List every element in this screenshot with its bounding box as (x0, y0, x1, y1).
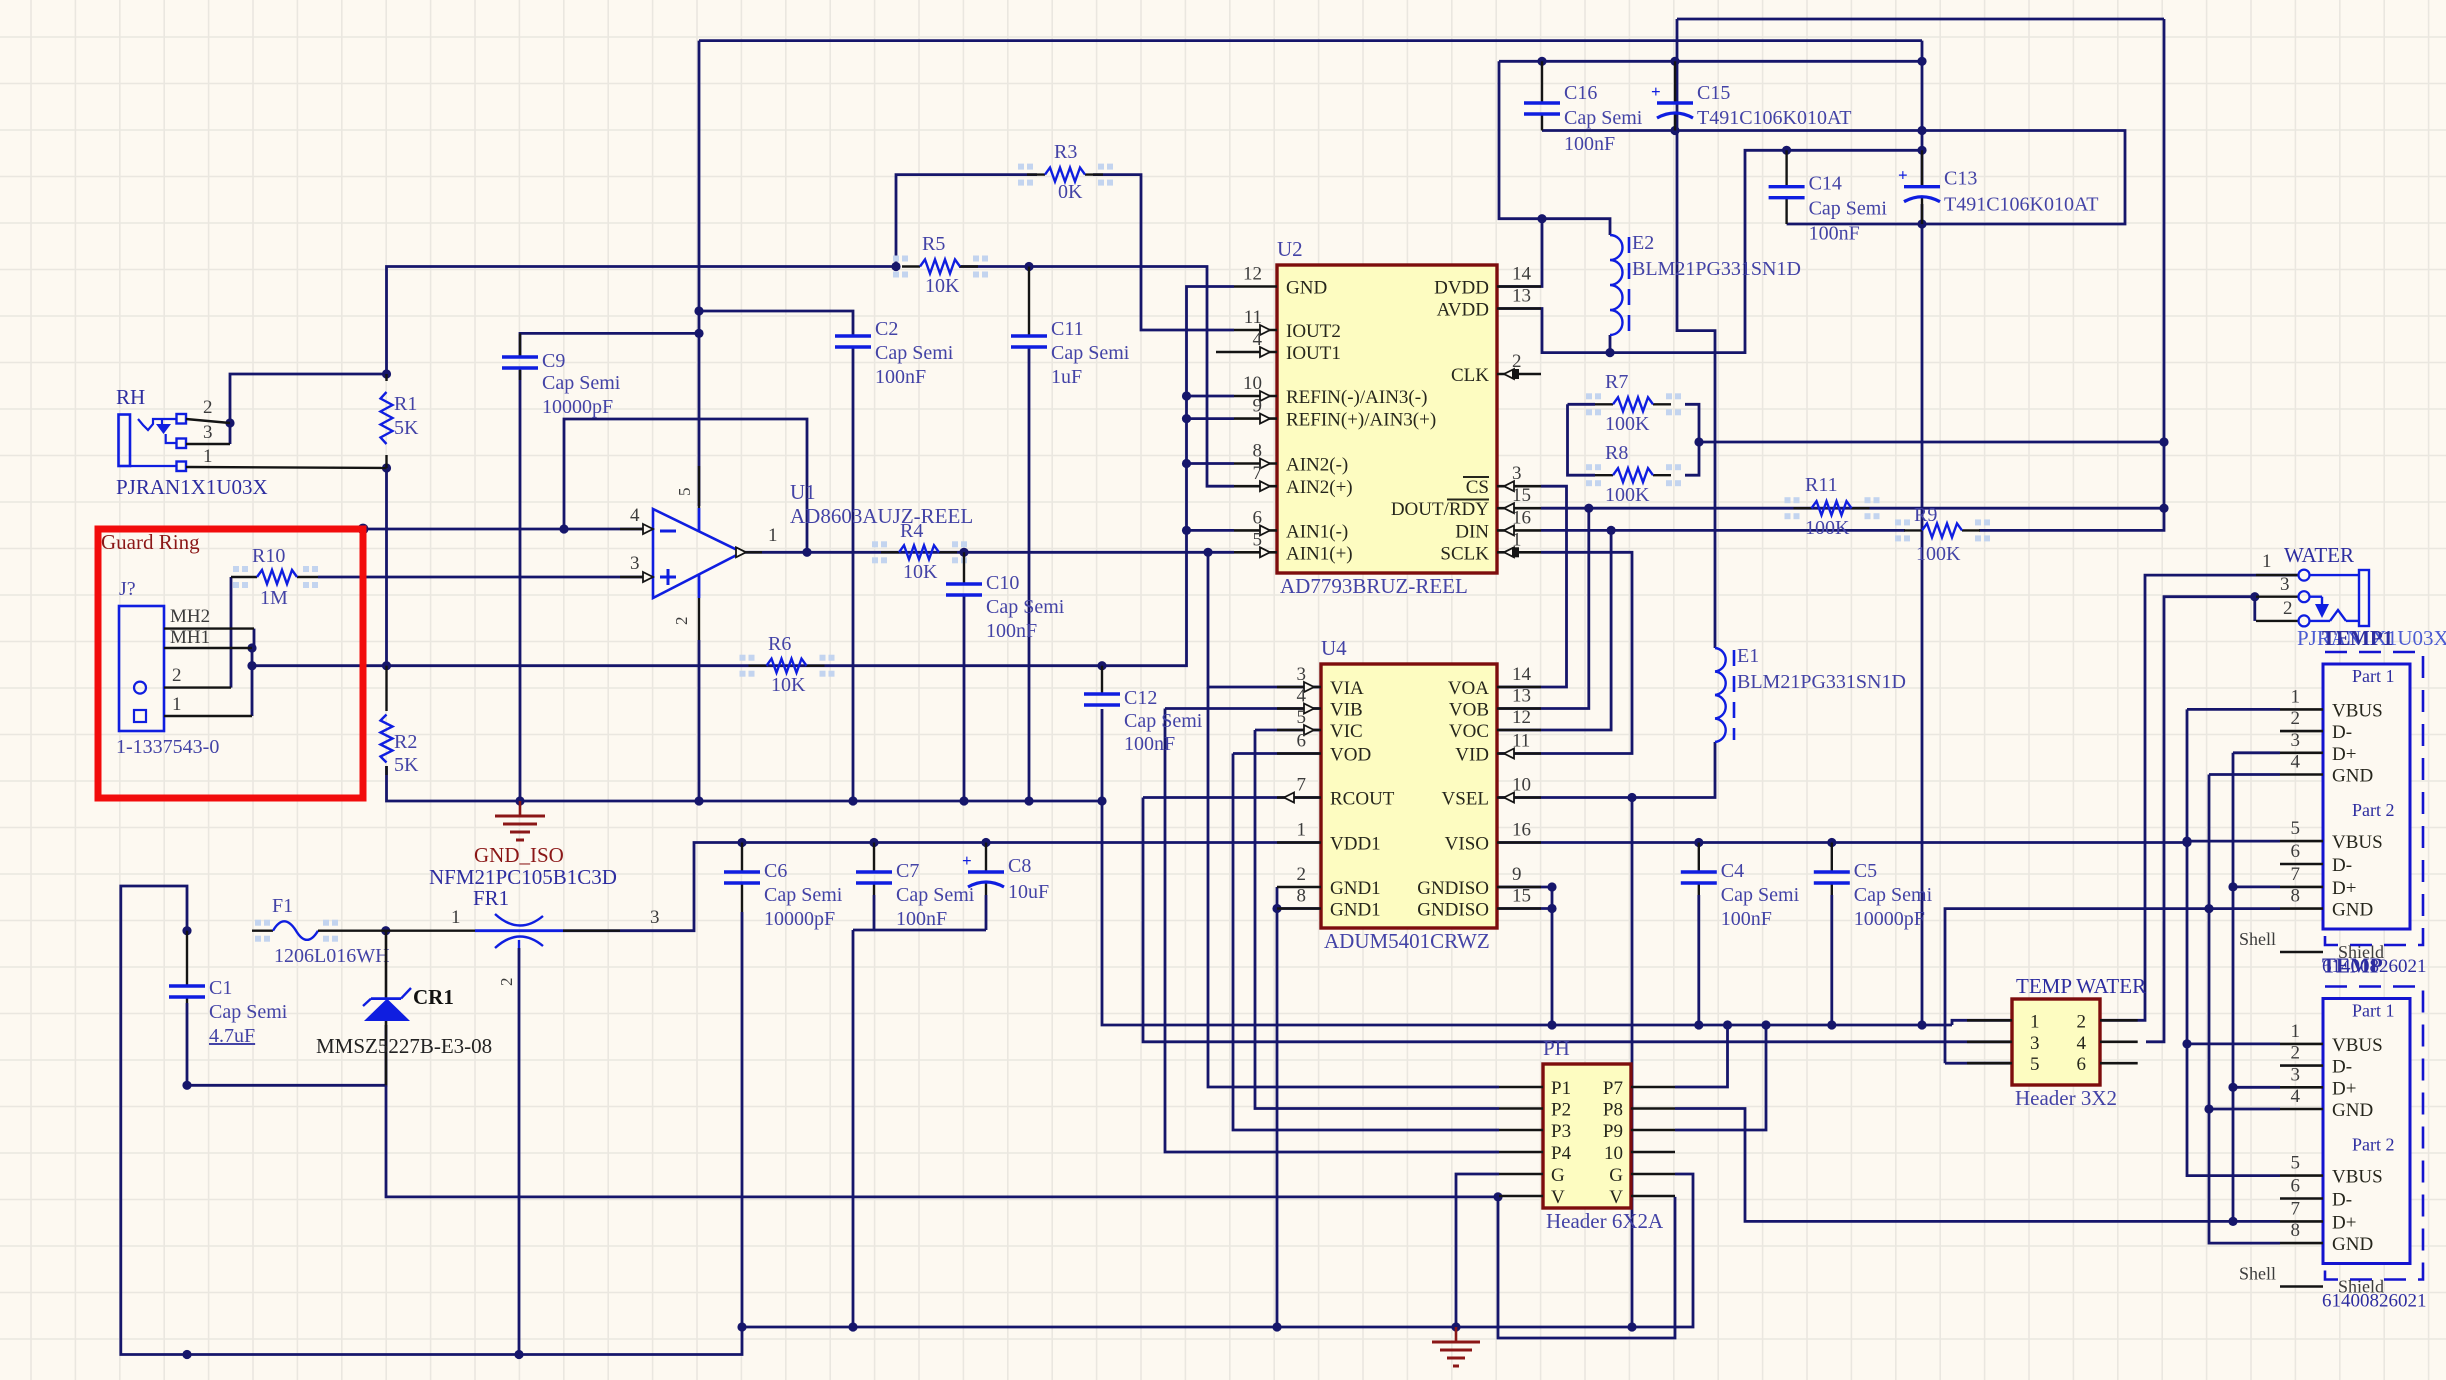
svg-text:1M: 1M (260, 587, 288, 609)
junction cap rail end (1917, 57, 1926, 66)
svg-text:REFIN(-)/AIN3(-): REFIN(-)/AIN3(-) (1286, 387, 1427, 408)
junction U4 gnd1 (1272, 904, 1281, 913)
svg-text:100K: 100K (1805, 517, 1850, 539)
svg-text:Part 1: Part 1 (2352, 666, 2395, 686)
junction usb gnd8 (2204, 904, 2213, 913)
junction C4 top (1694, 838, 1703, 847)
svg-text:Cap Semi: Cap Semi (1721, 884, 1800, 906)
svg-text:TEMP: TEMP (2322, 954, 2383, 978)
junction R1 pin1 (382, 463, 391, 472)
connector RH PJRAN1X1U03X (116, 385, 387, 499)
wire U4 pin8 stub link (1277, 907, 1321, 910)
connector TEMP1 USB 61400826021 (2239, 652, 2427, 977)
junction RH/R1 (225, 418, 234, 427)
svg-text:J?: J? (119, 578, 136, 600)
resistor R1 (381, 374, 420, 468)
svg-text:R5: R5 (922, 233, 945, 255)
svg-text:VID: VID (1455, 745, 1489, 766)
guard ring (98, 529, 363, 798)
svg-text:100K: 100K (1605, 413, 1650, 435)
svg-text:10K: 10K (925, 275, 960, 297)
svg-text:Shell: Shell (2239, 929, 2276, 949)
svg-text:C8: C8 (1008, 855, 1031, 877)
svg-text:5: 5 (2291, 818, 2301, 839)
wire ref to AIN2+ (1029, 267, 1234, 487)
svg-text:BLM21PG331SN1D: BLM21PG331SN1D (1737, 671, 1906, 693)
wire supply top rail (699, 39, 1922, 42)
svg-text:VBUS: VBUS (2332, 832, 2383, 853)
junction gndiso9 (1547, 882, 1556, 891)
junction P7 tap (1723, 1020, 1732, 1029)
resistor R5 (893, 233, 988, 297)
wire C7 leg (873, 895, 876, 930)
svg-text:AIN1(+): AIN1(+) (1286, 543, 1353, 564)
wire top frame (1677, 18, 2164, 21)
svg-text:VIC: VIC (1330, 721, 1363, 742)
junction U4 gnd rail (1272, 1322, 1281, 1331)
junction gnd sym rail (1451, 1322, 1460, 1331)
junction C1 rail (182, 1350, 191, 1359)
svg-text:2: 2 (2291, 1043, 2301, 1064)
svg-text:RCOUT: RCOUT (1330, 789, 1395, 810)
wire R7 right leg (1685, 404, 1699, 442)
svg-text:REFIN(+)/AIN3(+): REFIN(+)/AIN3(+) (1286, 410, 1436, 431)
svg-text:16: 16 (1512, 507, 1531, 528)
resistor R2 (381, 666, 420, 776)
svg-text:8: 8 (2291, 1220, 2301, 1241)
svg-text:Cap Semi: Cap Semi (875, 342, 954, 364)
svg-text:P3: P3 (1551, 1121, 1571, 1142)
junction pin2 gnd (694, 796, 703, 805)
svg-text:Cap Semi: Cap Semi (1564, 107, 1643, 129)
junction R5 left (891, 262, 900, 271)
ferrite bead E1 BLM21PG331SN1D (1715, 645, 1906, 742)
svg-text:1: 1 (2291, 686, 2301, 707)
svg-text:8: 8 (1297, 886, 1307, 907)
svg-text:RH: RH (116, 385, 145, 409)
svg-text:GNDISO: GNDISO (1417, 878, 1489, 899)
junction gndiso rail tap (1547, 1020, 1556, 1029)
svg-text:C12: C12 (1124, 687, 1157, 709)
svg-text:VBUS: VBUS (2332, 1035, 2383, 1056)
svg-text:ADUM5401CRWZ: ADUM5401CRWZ (1324, 929, 1490, 953)
wire DIN to R9 (1541, 529, 1905, 532)
svg-text:T491C106K010AT: T491C106K010AT (1697, 107, 1851, 129)
svg-text:1: 1 (1512, 529, 1522, 550)
resistor R7 (1586, 371, 1681, 435)
svg-text:GND: GND (2332, 1100, 2373, 1121)
wire pin10 (1187, 395, 1235, 398)
svg-text:IOUT1: IOUT1 (1286, 343, 1341, 364)
svg-text:VIA: VIA (1330, 678, 1364, 699)
svg-text:Cap Semi: Cap Semi (542, 372, 621, 394)
wire R7R8 left link (1568, 403, 1596, 406)
svg-text:R4: R4 (900, 520, 923, 542)
svg-text:100nF: 100nF (1564, 133, 1615, 155)
svg-text:6: 6 (2291, 1176, 2301, 1197)
junction REFIN+ tap (1182, 414, 1191, 423)
svg-text:P8: P8 (1603, 1100, 1623, 1121)
wire feedback (564, 419, 807, 552)
svg-text:2: 2 (2283, 598, 2293, 619)
svg-text:13: 13 (1512, 286, 1531, 307)
svg-text:WATER: WATER (2284, 543, 2354, 567)
svg-text:2: 2 (2077, 1011, 2087, 1032)
svg-text:15: 15 (1512, 886, 1531, 907)
junction feedback/pin4 (559, 524, 568, 533)
resistor R11 (1785, 474, 1880, 539)
junction VSEL tap (1627, 793, 1636, 802)
svg-text:VDD1: VDD1 (1330, 834, 1381, 855)
junction C13 bottom (1917, 219, 1926, 228)
svg-text:1: 1 (1297, 820, 1307, 841)
wire TW pin5 link (1945, 1062, 2012, 1065)
svg-text:10000pF: 10000pF (542, 396, 613, 418)
wire gndiso long leg (1921, 41, 1924, 187)
wire pin9 (1187, 417, 1235, 420)
wire R3 right leg (1093, 175, 1234, 330)
svg-text:3: 3 (2280, 574, 2290, 595)
wire pin8 (1187, 462, 1235, 465)
junction C10 gnd (959, 796, 968, 805)
wire VOB leg (1321, 508, 1589, 708)
svg-text:6: 6 (1297, 731, 1307, 752)
svg-text:GND_ISO: GND_ISO (474, 843, 564, 867)
svg-text:FR1: FR1 (473, 886, 509, 910)
svg-text:C15: C15 (1697, 82, 1730, 104)
svg-text:10K: 10K (903, 561, 938, 583)
junction dplus3 lower (2228, 1083, 2237, 1092)
svg-text:SCLK: SCLK (1440, 543, 1489, 564)
svg-text:VOD: VOD (1330, 745, 1371, 766)
svg-text:2: 2 (2291, 708, 2301, 729)
wire to C9 top (520, 333, 699, 357)
svg-text:F1: F1 (272, 895, 293, 917)
wire gnd drop (852, 930, 855, 1327)
svg-text:3: 3 (1512, 463, 1522, 484)
svg-text:1: 1 (2030, 1011, 2040, 1032)
junction R2 top (382, 661, 391, 670)
junction dplus7 lower (2228, 1217, 2237, 1226)
resistor R9 (1895, 504, 1990, 565)
wire vbus vert (2187, 709, 2280, 1175)
svg-text:2: 2 (1297, 864, 1307, 885)
junction C15C16 link (1537, 214, 1546, 223)
junction C10 tap (959, 548, 968, 557)
junction C6 rail (737, 1322, 746, 1331)
svg-text:CLK: CLK (1451, 365, 1489, 386)
wire WATER pin1 net (2100, 575, 2299, 1020)
capacitor C6 (724, 843, 843, 931)
svg-text:C10: C10 (986, 572, 1019, 594)
svg-text:C7: C7 (896, 860, 919, 882)
svg-text:1uF: 1uF (1051, 366, 1082, 388)
junction gndiso15 (1547, 904, 1556, 913)
svg-text:4: 4 (1253, 329, 1263, 350)
svg-text:D+: D+ (2332, 878, 2356, 899)
capacitor C13 (1898, 150, 2098, 224)
capacitor C5 (1814, 843, 1933, 931)
svg-text:4: 4 (1297, 686, 1307, 707)
svg-text:2: 2 (172, 665, 182, 686)
svg-text:D+: D+ (2332, 1212, 2356, 1233)
svg-text:13: 13 (1512, 686, 1531, 707)
wire V supply to PH (386, 1085, 1498, 1197)
svg-text:10uF: 10uF (1008, 881, 1049, 903)
svg-text:R10: R10 (252, 545, 285, 567)
svg-text:VIB: VIB (1330, 700, 1363, 721)
svg-text:2: 2 (203, 397, 213, 418)
svg-text:P9: P9 (1603, 1121, 1623, 1142)
svg-text:7: 7 (2291, 1198, 2301, 1219)
svg-text:AIN2(-): AIN2(-) (1286, 455, 1348, 476)
svg-text:+: + (962, 851, 972, 870)
capacitor C1 (169, 931, 288, 1047)
svg-text:P1: P1 (1551, 1078, 1571, 1099)
svg-text:U2: U2 (1277, 237, 1303, 261)
capacitor C7 (856, 843, 975, 931)
svg-text:5: 5 (2291, 1153, 2301, 1174)
svg-text:VOC: VOC (1449, 721, 1489, 742)
wire DOUT/RDY to R11 (1541, 507, 2164, 510)
junction vbus5 upper (2182, 837, 2191, 846)
svg-text:10K: 10K (771, 674, 806, 696)
junction C15 bottom (1670, 126, 1679, 135)
svg-text:D-: D- (2332, 1057, 2352, 1078)
svg-text:100nF: 100nF (1721, 908, 1772, 930)
wire CS to VOA (1321, 486, 1567, 687)
svg-text:GNDISO: GNDISO (1417, 900, 1489, 921)
wire VOC leg (1321, 530, 1611, 730)
junction gnd rail C7 (848, 1322, 857, 1331)
junction C5 gnd (1827, 1020, 1836, 1029)
svg-text:V: V (1609, 1187, 1623, 1208)
svg-text:R7: R7 (1605, 371, 1628, 393)
wire VISO rail (1497, 841, 2187, 844)
wire usb gnd net (1945, 909, 2280, 1064)
svg-text:R6: R6 (768, 633, 791, 655)
svg-text:6: 6 (1253, 507, 1263, 528)
wire to C2 top (699, 311, 853, 336)
svg-text:1: 1 (172, 694, 182, 715)
junction R5/C11 (1024, 262, 1033, 271)
wire R5 up to R3 (896, 175, 1037, 267)
junction dplus7 upper (2228, 882, 2237, 891)
IC U2 AD7793BRUZ-REEL (1216, 237, 1541, 598)
capacitor C15 (1651, 61, 1851, 130)
wire P9 up (1675, 1025, 1766, 1130)
svg-text:6: 6 (2077, 1054, 2087, 1075)
wire VIC to P2 (1255, 730, 1499, 1109)
svg-text:Cap Semi: Cap Semi (1854, 884, 1933, 906)
svg-text:7: 7 (1253, 463, 1263, 484)
svg-text:10000pF: 10000pF (764, 908, 835, 930)
svg-text:5: 5 (675, 488, 694, 497)
svg-text:Part 2: Part 2 (2352, 1135, 2395, 1155)
wire FR1 pin3 up (563, 843, 1321, 931)
svg-text:1: 1 (2262, 551, 2272, 572)
wire VSEL drop (1631, 798, 1634, 1328)
junction C15 top (1670, 57, 1679, 66)
svg-text:3: 3 (203, 422, 213, 443)
junction F1 right (381, 926, 390, 935)
svg-text:100nF: 100nF (1809, 223, 1860, 245)
capacitor C4 (1681, 843, 1800, 931)
svg-text:Cap Semi: Cap Semi (1809, 198, 1888, 220)
svg-text:T491C106K010AT: T491C106K010AT (1944, 194, 2098, 216)
svg-text:10: 10 (1512, 775, 1531, 796)
junction AIN2- tap (1182, 459, 1191, 468)
svg-text:11: 11 (1244, 307, 1262, 328)
junction C13 top (1917, 146, 1926, 155)
svg-text:0K: 0K (1058, 181, 1083, 203)
junction C12 gnd (1097, 796, 1106, 805)
svg-text:+: + (1898, 166, 1908, 185)
svg-text:Shell: Shell (2239, 1264, 2276, 1284)
svg-text:BLM21PG331SN1D: BLM21PG331SN1D (1632, 258, 1801, 280)
wire op-amp V+ vertical (698, 41, 701, 506)
svg-text:Header 3X2: Header 3X2 (2015, 1086, 2117, 1110)
svg-text:4.7uF: 4.7uF (209, 1025, 255, 1047)
svg-text:7: 7 (1297, 775, 1307, 796)
svg-text:DVDD: DVDD (1434, 278, 1489, 299)
svg-text:CS: CS (1466, 477, 1489, 498)
svg-text:MMSZ5227B-E3-08: MMSZ5227B-E3-08 (316, 1034, 492, 1058)
wire C12 down to iso rail (1102, 709, 1952, 1025)
wire RCOUT to TW3 (1143, 798, 2012, 1042)
svg-text:R2: R2 (394, 731, 417, 753)
svg-text:CR1: CR1 (413, 985, 454, 1009)
svg-text:2: 2 (672, 617, 691, 626)
svg-text:10: 10 (1243, 373, 1262, 394)
svg-text:14: 14 (1512, 664, 1532, 685)
svg-text:Cap Semi: Cap Semi (764, 884, 843, 906)
wire P8 to D+ (1675, 1109, 2233, 1222)
svg-text:3: 3 (630, 553, 640, 574)
wire op-amp pin2 leg (698, 640, 701, 801)
svg-text:AIN2(+): AIN2(+) (1286, 477, 1353, 498)
junction VOC tap (1607, 526, 1616, 535)
wire J guard link (253, 629, 256, 648)
svg-text:15: 15 (1512, 485, 1531, 506)
svg-text:GND: GND (2332, 766, 2373, 787)
svg-text:3: 3 (2291, 730, 2301, 751)
svg-text:100nF: 100nF (875, 366, 926, 388)
svg-text:R1: R1 (394, 393, 417, 415)
svg-text:C2: C2 (875, 318, 898, 340)
svg-text:R9: R9 (1914, 504, 1937, 526)
svg-text:VISO: VISO (1445, 834, 1489, 855)
svg-text:C13: C13 (1944, 168, 1977, 190)
filter FR1 NFM21PC105B1C3D (386, 907, 660, 986)
wire RCOUT net (1143, 796, 1321, 799)
wire vbus1 upper (2187, 708, 2280, 711)
svg-text:Part 2: Part 2 (2352, 800, 2395, 820)
junction P9 tap (1761, 1020, 1770, 1029)
wire DVDD drop (1497, 219, 1542, 287)
svg-text:U1: U1 (790, 480, 816, 504)
wire VIA net (1208, 552, 1321, 687)
wire VOD net (1233, 752, 1321, 755)
capacitor C11 (1011, 267, 1130, 389)
junction C2 tap (694, 306, 703, 315)
svg-text:8: 8 (2291, 886, 2301, 907)
svg-text:E1: E1 (1737, 645, 1759, 667)
svg-text:GND: GND (2332, 1234, 2373, 1255)
ground GND1 (1432, 1327, 1480, 1366)
svg-text:TEMP WATER: TEMP WATER (2016, 974, 2146, 998)
svg-text:2: 2 (1512, 351, 1522, 372)
svg-text:7: 7 (2291, 864, 2301, 885)
wire gndiso to TW1 (1952, 1020, 2012, 1025)
ground GND_ISO (474, 801, 564, 867)
wire WATER pin2 drop (2253, 597, 2256, 621)
svg-text:5: 5 (1253, 529, 1263, 550)
wire R10 left leg (230, 577, 233, 688)
wire FR1 pin2 leg (518, 948, 521, 1355)
svg-text:100nF: 100nF (1124, 733, 1175, 755)
junction C6 top (737, 838, 746, 847)
wire frame right leg (2163, 19, 2166, 442)
junction C1 bottom (182, 1081, 191, 1090)
wire P7 up (1675, 1025, 1728, 1087)
svg-text:AVDD: AVDD (1437, 300, 1489, 321)
wire dplus7 lower stub (2233, 1220, 2280, 1223)
junction usb gnd4 lower (2204, 1104, 2213, 1113)
junction C14 top (1782, 146, 1791, 155)
wire output to AIN1+ (742, 551, 1234, 554)
svg-text:1-1337543-0: 1-1337543-0 (116, 736, 219, 758)
wire VIB net (1165, 707, 1321, 710)
wire C2 bottom leg (852, 347, 855, 801)
svg-text:C16: C16 (1564, 82, 1597, 104)
junction GND_ISO (515, 796, 524, 805)
capacitor C2 (835, 318, 954, 388)
svg-text:P4: P4 (1551, 1143, 1572, 1164)
wire R9 right (1979, 442, 2164, 530)
svg-text:8: 8 (1253, 441, 1263, 462)
wire VIC net (1255, 729, 1321, 732)
wire R1-R2 link (385, 468, 388, 666)
junction guard corner (358, 524, 369, 535)
svg-text:R11: R11 (1805, 474, 1838, 496)
svg-text:P7: P7 (1603, 1078, 1623, 1099)
svg-text:Cap Semi: Cap Semi (209, 1001, 288, 1023)
wire PH V loop (1498, 1197, 1675, 1338)
junction AIN1- tap (1182, 526, 1191, 535)
connector TEMP USB 61400826021 (2239, 954, 2427, 1312)
wire gndiso long leg2 (1921, 204, 1924, 1025)
wire RH pin2 net (230, 374, 387, 444)
svg-text:D-: D- (2332, 722, 2352, 743)
wire C11 bottom leg (1028, 347, 1031, 801)
resistor R10 (231, 545, 318, 609)
wire dplus3 lower stub (2233, 1086, 2280, 1089)
wire gnd vert (2209, 775, 2280, 1244)
wire C1/CR1 bottom (187, 1025, 386, 1085)
svg-text:3: 3 (650, 907, 660, 928)
svg-text:100nF: 100nF (896, 908, 947, 930)
wire C8 leg (985, 895, 988, 930)
svg-text:Guard Ring: Guard Ring (101, 530, 200, 554)
wire VIB to P4 (1165, 709, 1499, 1153)
wire dplus vert (2232, 753, 2235, 1222)
svg-text:10: 10 (1604, 1143, 1623, 1164)
wire WATER pin32 net (2146, 597, 2255, 1042)
svg-text:GND: GND (1286, 278, 1327, 299)
svg-text:12: 12 (1243, 264, 1262, 285)
svg-text:Part 1: Part 1 (2352, 1001, 2395, 1021)
